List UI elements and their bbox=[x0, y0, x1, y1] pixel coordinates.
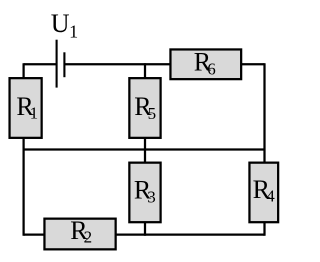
label R3 bbox=[134, 176, 156, 207]
label R4 bbox=[253, 175, 276, 206]
resistor R5 bbox=[129, 78, 160, 138]
label R2 bbox=[70, 216, 92, 247]
battery U1 short plate bbox=[63, 52, 65, 77]
label R6 bbox=[194, 48, 216, 79]
resistor R3 bbox=[129, 163, 160, 223]
wire: top-left segment from battery negative to left rail corner bbox=[24, 63, 57, 65]
resistor R4 bbox=[249, 163, 278, 223]
wire: left rail from top wire down to bottom wire bbox=[22, 63, 24, 236]
label R1 bbox=[16, 92, 38, 123]
svg-text:3: 3 bbox=[147, 187, 156, 206]
label R5 bbox=[134, 92, 156, 123]
label U1 bbox=[51, 9, 78, 42]
wire: top-right segment from battery positive to R6 left terminal bbox=[65, 63, 171, 65]
svg-text:1: 1 bbox=[30, 103, 38, 122]
wire: vertical branch through R5 and R3 (node at top wire to bottom wire) bbox=[144, 63, 146, 236]
svg-text:5: 5 bbox=[148, 104, 157, 123]
svg-text:1: 1 bbox=[69, 21, 78, 41]
resistor R2 bbox=[44, 219, 115, 250]
resistor R6 bbox=[170, 49, 241, 79]
resistor R1 bbox=[10, 78, 42, 138]
battery U1 long plate bbox=[56, 40, 58, 88]
wire: bottom horizontal bus bbox=[24, 233, 265, 235]
wire: middle horizontal bus bbox=[24, 148, 265, 150]
wire: R6 right terminal to right rail corner bbox=[241, 63, 265, 65]
wire: right rail from R6 level down to bottom wire bbox=[263, 63, 265, 236]
svg-text:U: U bbox=[51, 9, 70, 38]
svg-text:6: 6 bbox=[207, 59, 216, 78]
svg-text:2: 2 bbox=[84, 228, 93, 247]
svg-text:4: 4 bbox=[266, 187, 275, 206]
